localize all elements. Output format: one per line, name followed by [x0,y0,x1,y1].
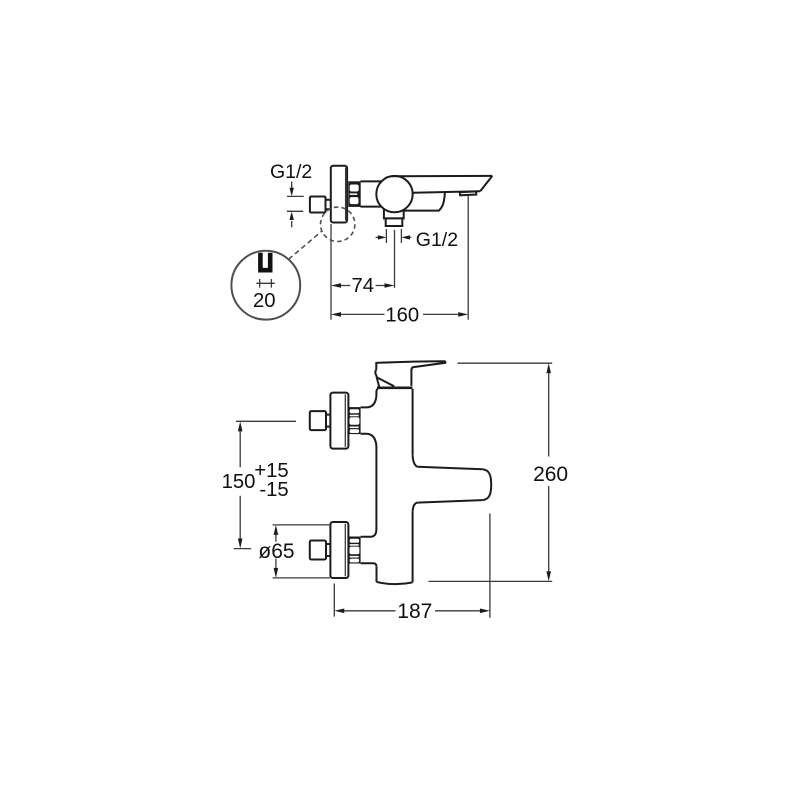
ø65 upper arrow [275,535,277,542]
svg-text:ø65: ø65 [258,540,294,563]
handle skirt left edge [377,377,380,387]
G1/2 bottom dimension ticks [385,229,387,243]
dimension 74 [341,285,385,287]
aerator under spout [460,191,477,195]
hex nut (side view) [348,181,360,207]
bottom union stub [326,544,330,556]
top union upper fillet to body [361,396,377,407]
handle end cap arc [375,370,376,378]
dimension 160 [341,313,458,315]
dim 260 bottom extension line [429,580,553,582]
svg-text:74: 74 [351,275,374,297]
valve body circle [376,176,412,212]
right extension line (spout outlet) [467,196,469,320]
dim ø65 bottom extension line [273,577,330,579]
dim 187 line [344,610,480,612]
bottom port upper rect (behind circle) [384,206,404,219]
top union hex nut [348,407,360,434]
dim 187 left extension line [333,584,335,617]
svg-text:20: 20 [253,290,276,312]
dim 260 vertical line [548,373,550,571]
tick line top of square [287,195,304,197]
spout top edge [417,467,482,470]
body left edge segment B [375,446,377,529]
top union escutcheon [330,393,348,449]
body left edge segment C [376,567,378,582]
svg-text:G1/2: G1/2 [416,229,458,251]
handle lever [376,361,445,386]
wall plate [331,166,347,223]
svg-text:150: 150 [222,471,256,493]
handle skirt diagonal [377,377,395,386]
dashed leader line [289,231,323,260]
spout top fillet [413,455,418,467]
tick line bottom of square [287,210,303,212]
detail dim ticks 20 [256,279,275,288]
top union escutcheon inner edge [344,394,346,447]
dim ø65 top extension line [273,524,330,526]
dim 150 vertical line [239,431,241,538]
bottom union escutcheon [330,522,348,578]
dim 260 top extension line [458,362,553,364]
spout top edge [392,175,493,177]
bottom union square [310,541,326,560]
wall bracket U profile [260,253,270,270]
spout right cap [482,469,491,500]
connector stub [326,200,331,209]
G1/2 bottom right arrow [409,236,411,238]
svg-text:G1/2: G1/2 [270,161,312,183]
body top line [377,386,413,389]
svg-text:160: 160 [385,305,419,327]
top union lower fillet to body [361,434,377,446]
spout bottom edge [417,500,482,503]
svg-text:187: 187 [397,600,432,623]
ø65 lower arrow [275,559,277,568]
left extension line (wall face) [330,224,332,320]
body bottom sag [377,582,413,584]
wall plate inner edge line [345,168,347,221]
detail circle [231,251,300,320]
body mid section top edge [361,180,382,182]
arrow down to top tick [291,182,293,189]
dim 187 right extension line [489,513,491,617]
body left edge segment A [376,389,378,396]
top union square [310,411,326,430]
body right edge lower [412,512,414,583]
inlet square connector [310,197,326,213]
dim 150 top extension line [236,420,296,422]
dashed detail source circle [321,207,355,241]
G1/2 bottom left arrow [376,236,379,238]
bottom union hex nut [348,537,360,564]
spout underside [413,191,480,193]
spout bottom fillet [413,503,418,512]
spout tip bevel [480,176,492,191]
top union stub [326,415,330,427]
center extension line below port [394,230,396,288]
body right edge upper [412,389,414,455]
arrow up to bottom tick [291,221,293,227]
svg-text:260: 260 [533,463,568,486]
bottom port lower rect [386,218,403,226]
bottom union escutcheon inner edge [344,524,346,577]
svg-text:-15: -15 [259,479,288,501]
bottom union upper fillet to body [361,529,377,537]
bottom union lower fillet to body [361,563,377,567]
body belly curve [402,192,445,211]
dim 150 bottom extension tick [234,548,252,550]
body mid section bottom edge [361,206,385,208]
